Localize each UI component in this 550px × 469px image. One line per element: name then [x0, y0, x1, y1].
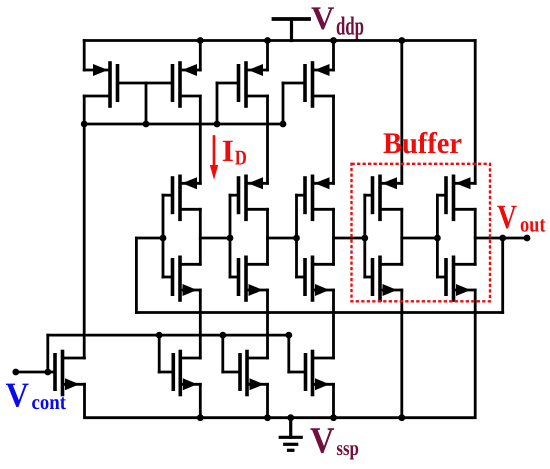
wire MP1 source to VDD rail: [83, 41, 86, 71]
transistor stage NMOS (stage buffer 2): [437, 257, 475, 300]
wire stage output vertical (stage 1): [199, 209, 202, 264]
wire MP3 source riser: [266, 41, 269, 71]
transistor stage NMOS (stage 3): [297, 257, 334, 300]
node MN3 source on VSS rail: [330, 414, 337, 421]
wire buffer-2 output to V_out: [475, 237, 527, 240]
current arrow I_D: [210, 137, 218, 180]
ground symbol V_ssp: [280, 418, 301, 451]
node V_cont terminal: [12, 369, 19, 376]
node feedback tap on output: [499, 235, 506, 242]
label V_ssp: [310, 428, 358, 459]
wire PMOS mirror bias line: [84, 123, 283, 126]
node stage-1 input: [160, 235, 167, 242]
transistor stage NMOS (stage 2): [230, 257, 268, 300]
wire MP4 gate riser: [282, 83, 285, 124]
wire feedback dropper: [501, 238, 504, 313]
wire buffer-1 PMOS source riser to VDD: [400, 41, 403, 184]
wire stage gate vertical x=296.5 (stage 3): [295, 195, 298, 277]
wire MN1 source to VSS: [199, 384, 202, 417]
wire NMOS gate control line: [48, 334, 289, 337]
wire ring input segment: [136, 237, 163, 240]
node V_cont gate junction: [44, 369, 51, 376]
wire MP4 drain to stage-3 PMOS source: [332, 96, 335, 183]
wire stage-2 NMOS source to MN2 drain: [266, 290, 269, 358]
power symbol V_ddp (supply T-bar): [274, 19, 310, 41]
wire MP4 source riser: [332, 41, 335, 71]
node buffer-1 input: [361, 235, 368, 242]
wire stage-1 NMOS source to MN1 drain: [199, 290, 202, 358]
wire MP2 source riser: [199, 41, 202, 71]
wire VDD rail right end down to buffer-2 PMOS source: [474, 41, 477, 184]
node MN1 gate on control line: [156, 332, 163, 339]
node ground stub on VSS rail: [287, 414, 294, 421]
transistor stage PMOS (stage 1): [163, 176, 200, 219]
transistor stage NMOS (stage buffer 1): [365, 257, 402, 300]
wire stage output vertical (stage 3): [332, 209, 335, 264]
node MP3 source on VDD rail: [264, 37, 271, 44]
wire MP1-MP2 gate link: [118, 82, 173, 85]
wire stage output vertical (stage buffer 1): [400, 209, 403, 264]
node buffer-1 NMOS source on VSS rail: [398, 414, 405, 421]
wire stage gate vertical x=230 (stage 2): [229, 195, 232, 277]
wire stage-2 output to stage-3 input: [268, 237, 297, 240]
wire V_cont riser to NMOS gate line: [46, 335, 49, 372]
wire MN1 gate riser: [158, 335, 161, 372]
wire feedback riser to stage-1 input: [135, 238, 138, 313]
node MP4 source on VDD rail: [330, 37, 337, 44]
wire VDD rail (top): [84, 39, 475, 42]
transistor stage PMOS (stage buffer 2): [437, 176, 475, 219]
wire stage-3 NMOS source to MN3 drain: [332, 290, 335, 358]
wire stage-1 output to stage-2 input: [200, 237, 230, 240]
wire MN3 gate riser: [287, 335, 290, 372]
wire VSS rail (bottom): [85, 290, 476, 418]
node MN2 source on VSS rail: [264, 414, 271, 421]
transistor MP4 (PMOS current source, stage 3): [283, 63, 334, 106]
wire stage output vertical (stage buffer 2): [474, 209, 477, 264]
wire buffer-1 NMOS source to VSS rail: [400, 290, 403, 418]
node MP2 source on VDD rail: [197, 37, 204, 44]
wire MP3 drain to stage-2 PMOS source: [266, 96, 269, 183]
node stage-2 input: [227, 235, 234, 242]
transistor MN3 (NMOS current sink, stage 3): [289, 352, 334, 395]
label V_out: [497, 206, 545, 232]
wire buffer-1 output to buffer-2 input: [402, 237, 438, 240]
wire feedback line: [136, 311, 502, 314]
wire MP1 drain to bias line: [83, 96, 86, 124]
wire MP3 gate riser: [216, 83, 219, 124]
node MP3 gate on bias line: [214, 121, 221, 128]
wire MN3 source to VSS: [332, 384, 335, 417]
wire mirror-gate riser: [145, 83, 148, 124]
label I_D: [223, 141, 246, 165]
wire V_cont input lead: [16, 371, 48, 374]
node mirror gate / bias line: [143, 121, 150, 128]
label Buffer: [384, 132, 462, 154]
wire stage-3 output to buffer-1 input: [334, 237, 365, 240]
node MP4 gate on bias line: [280, 121, 287, 128]
transistor MP3 (PMOS current source, stage 2): [217, 63, 268, 106]
transistor stage PMOS (stage 2): [230, 176, 268, 219]
transistor stage NMOS (stage 1): [163, 257, 200, 300]
transistor MN_cont (V_cont bias NMOS): [48, 352, 85, 395]
wire MP2 drain to stage-1 PMOS source: [199, 96, 202, 183]
transistor MP2 (PMOS current source, stage 1): [173, 63, 201, 106]
buffer enclosure (red dashed box): [352, 164, 491, 301]
wire MN2 gate riser: [221, 335, 224, 372]
label V_cont: [6, 384, 66, 410]
node MN2 gate on control line: [219, 332, 226, 339]
node MN3 gate on control line: [285, 332, 292, 339]
node V_out terminal: [524, 235, 531, 242]
transistor stage PMOS (stage 3): [297, 176, 334, 219]
transistor MN2 (NMOS current sink, stage 2): [223, 352, 268, 395]
node buffer-1 PMOS source on VDD rail: [398, 37, 405, 44]
node stage-3 input: [293, 235, 300, 242]
wire stage gate vertical x=364.8 (stage buffer 1): [363, 195, 366, 277]
wire MN2 source to VSS: [266, 384, 269, 417]
wire stage output vertical (stage 2): [266, 209, 269, 264]
node bias line left end: [81, 121, 88, 128]
transistor stage PMOS (stage buffer 1): [365, 176, 402, 219]
wire stage gate vertical x=163 (stage 1): [162, 195, 165, 277]
label V_ddp: [311, 7, 363, 40]
node MN1 source on VSS rail: [197, 414, 204, 421]
wire bias diode branch (left vertical): [83, 124, 86, 358]
wire stage gate vertical x=437.4 (stage buffer 2): [436, 195, 439, 277]
transistor MP1 (diode-connected PMOS mirror master): [84, 63, 117, 106]
transistor MN1 (NMOS current sink, stage 1): [159, 352, 200, 395]
node buffer-2 input: [434, 235, 441, 242]
